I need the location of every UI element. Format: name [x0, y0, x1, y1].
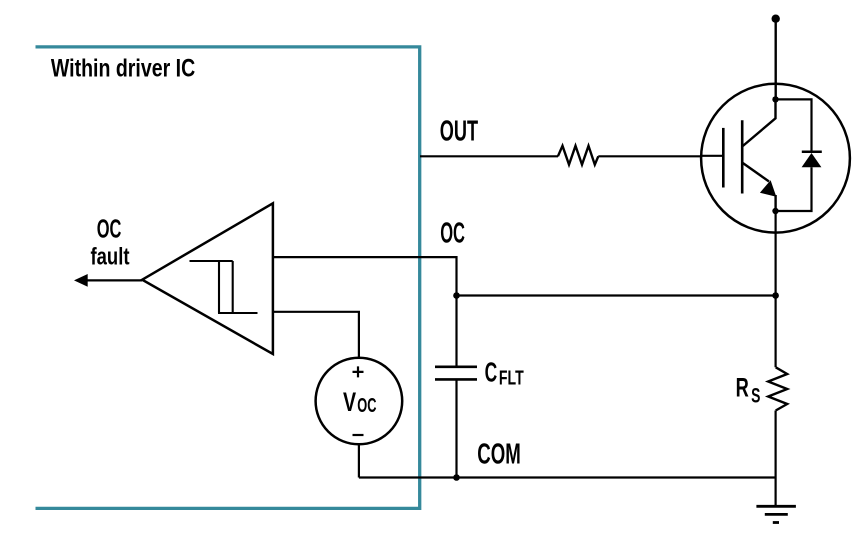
svg-text:fault: fault: [91, 244, 130, 271]
svg-text:OC: OC: [97, 215, 122, 243]
svg-text:C: C: [485, 357, 498, 388]
svg-text:OUT: OUT: [440, 115, 479, 147]
svg-text:Within driver IC: Within driver IC: [51, 55, 195, 83]
svg-text:R: R: [736, 373, 749, 403]
svg-text:S: S: [751, 384, 760, 407]
svg-text:V: V: [343, 387, 356, 417]
svg-text:FLT: FLT: [499, 368, 524, 390]
svg-text:COM: COM: [477, 438, 521, 470]
svg-text:OC: OC: [440, 217, 465, 249]
svg-text:OC: OC: [357, 394, 376, 417]
